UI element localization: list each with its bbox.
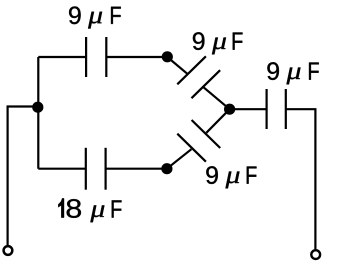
wire bottom branch right bbox=[106, 168, 167, 170]
label C1 value 9 uF bbox=[69, 6, 121, 28]
node B junction dot bbox=[162, 51, 173, 62]
wire node B to upper diagonal capacitor bbox=[167, 57, 188, 74]
wire top branch right bbox=[106, 56, 167, 58]
capacitor C2 18uF left plate (bottom branch) bbox=[85, 148, 87, 190]
terminal left open circle bbox=[4, 246, 13, 255]
wire left terminal riser and stub from node A bbox=[8, 107, 38, 246]
wire lower diagonal capacitor to node D bbox=[206, 109, 229, 133]
capacitor C2 18uF right plate (bottom branch) bbox=[104, 148, 106, 190]
node C junction dot bbox=[161, 163, 172, 174]
capacitor C3 9uF upper plate (upper diagonal) bbox=[177, 56, 206, 84]
capacitor C5 9uF left plate (right branch) bbox=[266, 89, 268, 129]
capacitor C4 9uF lower plate (lower diagonal) bbox=[177, 134, 206, 162]
capacitor C5 9uF right plate (right branch) bbox=[285, 89, 287, 129]
label C2 value 18 uF bbox=[58, 198, 121, 222]
wire left vertical between top and bottom branch bbox=[37, 57, 39, 169]
wire upper diagonal capacitor to node D bbox=[203, 87, 229, 109]
wire bottom branch left bbox=[38, 168, 86, 170]
capacitor C3 9uF lower plate (upper diagonal) bbox=[192, 70, 221, 98]
label C4 value 9 uF bbox=[206, 166, 256, 188]
capacitor C4 9uF upper plate (lower diagonal) bbox=[192, 120, 221, 148]
wire right capacitor to right terminal bbox=[286, 109, 316, 249]
node A junction dot bbox=[32, 102, 43, 113]
terminal right open circle bbox=[311, 250, 320, 259]
node D junction dot bbox=[224, 104, 235, 115]
capacitor C1 9uF right plate (top branch) bbox=[105, 37, 107, 77]
wire node C to lower diagonal capacitor bbox=[167, 149, 192, 169]
capacitor C1 9uF left plate (top branch) bbox=[85, 37, 87, 77]
wire node D to right capacitor bbox=[230, 108, 267, 110]
label C3 value 9 uF bbox=[193, 32, 243, 54]
label C5 value 9 uF bbox=[267, 62, 318, 84]
wire top branch left bbox=[38, 56, 86, 58]
